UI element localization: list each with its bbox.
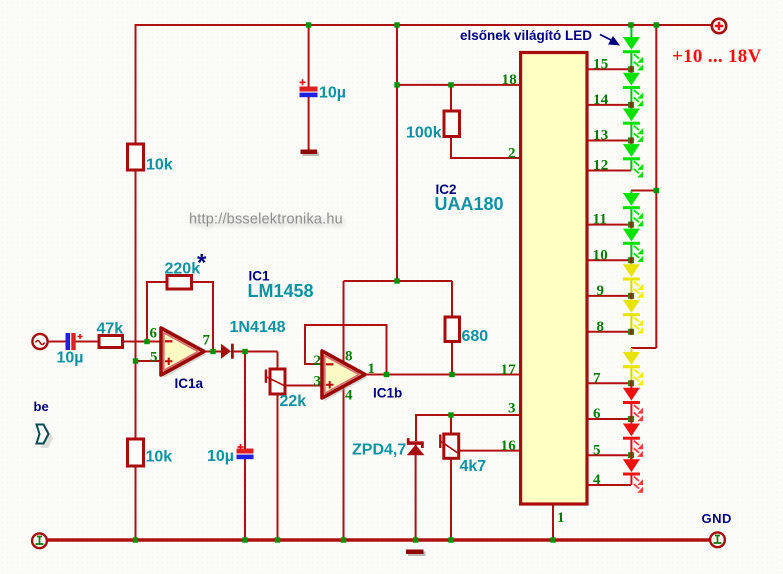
svg-text:17: 17 bbox=[501, 362, 517, 378]
LED D7 (yellow) bbox=[623, 260, 643, 298]
junction LED tap pin 11 bbox=[628, 222, 634, 228]
junction pin18 / 100k bbox=[448, 82, 453, 87]
wire end tick pin 8 bbox=[630, 329, 632, 335]
wire 22k bottom to bus bbox=[277, 394, 279, 540]
svg-text:be: be bbox=[34, 399, 49, 414]
wire decoupling cap top bbox=[308, 25, 310, 87]
junction bus / 4k7 bbox=[448, 537, 453, 542]
resistor 220k bbox=[167, 276, 192, 290]
svg-text:http://bsselektronika.hu: http://bsselektronika.hu bbox=[189, 212, 343, 228]
svg-text:3: 3 bbox=[314, 374, 322, 390]
wire pin 14 bbox=[587, 104, 631, 106]
wire end tick pin 11 bbox=[630, 222, 632, 228]
svg-text:15: 15 bbox=[593, 57, 608, 73]
svg-text:1: 1 bbox=[557, 510, 565, 526]
wire 100k top bbox=[450, 85, 452, 111]
svg-text:1N4148: 1N4148 bbox=[230, 319, 286, 336]
wire top +V rail bbox=[136, 24, 712, 26]
wire end tick pin 14 bbox=[630, 102, 632, 108]
LED D6 (green) bbox=[623, 225, 643, 262]
input port arrow (be) bbox=[37, 425, 54, 449]
svg-text:10µ: 10µ bbox=[207, 448, 234, 465]
svg-text:ZPD4,7: ZPD4,7 bbox=[352, 442, 406, 459]
wire ground bus bbox=[46, 538, 711, 541]
svg-text:UAA180: UAA180 bbox=[435, 194, 504, 214]
ground terminal GND (right end of bus) bbox=[710, 532, 725, 547]
resistor 47k bbox=[99, 336, 123, 348]
svg-text:13: 13 bbox=[593, 128, 608, 144]
svg-text:4: 4 bbox=[345, 388, 353, 404]
wire end tick pin 9 bbox=[630, 293, 632, 299]
LED D1 (green) bbox=[623, 25, 643, 70]
wire end tick pin 10 bbox=[630, 257, 632, 263]
junction pin 3 wire / 4k7 bbox=[448, 412, 453, 417]
LED D11 (red) bbox=[623, 419, 643, 457]
svg-text:+10 ... 18V: +10 ... 18V bbox=[672, 46, 762, 67]
wire pin 6 bbox=[587, 418, 631, 420]
wire IC1b output to pin 17 bbox=[365, 374, 519, 376]
svg-text:1: 1 bbox=[368, 361, 376, 377]
IC U2 UAA180 body bbox=[521, 53, 587, 505]
wire pin 15 bbox=[587, 68, 631, 70]
junction IC1a output / 220k bbox=[210, 349, 215, 354]
resistor 100k bbox=[444, 111, 460, 137]
junction LED tap pin 14 bbox=[628, 102, 634, 108]
svg-text:11: 11 bbox=[593, 212, 608, 228]
svg-text:7: 7 bbox=[203, 333, 211, 349]
LED D10 (red) bbox=[623, 383, 643, 421]
svg-text:5: 5 bbox=[150, 350, 158, 366]
junction LED tap pin 8 bbox=[628, 329, 634, 335]
wire pin 10 bbox=[587, 259, 631, 261]
resistor 10k (lower bias) bbox=[128, 439, 144, 466]
wire pin 16 bbox=[459, 450, 519, 452]
wire IC1b pin 4 drop to bus bbox=[343, 386, 345, 540]
junction top rail / decoupling cap bbox=[306, 22, 311, 27]
arrow pointing to first LED bbox=[600, 35, 620, 46]
wire pin 8 bbox=[587, 331, 631, 333]
wire end tick pin 5 bbox=[630, 452, 632, 458]
junction LED tap pin 15 bbox=[628, 66, 634, 72]
svg-text:22k: 22k bbox=[280, 393, 307, 410]
wire left rail lower (10k to ground bus) bbox=[135, 466, 137, 540]
svg-text:10µ: 10µ bbox=[319, 85, 346, 102]
signal source symbol bbox=[32, 334, 47, 349]
wire zener bottom to bus bbox=[415, 445, 417, 540]
wire pin 7 bbox=[587, 382, 631, 384]
wire pin 3 to zener bbox=[416, 415, 519, 441]
svg-text:*: * bbox=[197, 250, 207, 277]
wire op-amp supply rail bbox=[344, 280, 453, 282]
wire filter cap top bbox=[244, 352, 246, 449]
LED D5 (green) bbox=[623, 191, 643, 227]
svg-text:6: 6 bbox=[593, 406, 601, 422]
wire decoupling cap bottom bbox=[308, 97, 310, 150]
svg-text:16: 16 bbox=[501, 438, 517, 454]
junction pin 5 node bbox=[133, 358, 138, 363]
junction LED tap pin 13 bbox=[628, 138, 634, 144]
junction bus / IC1b pin 4 bbox=[341, 537, 346, 542]
junction IC1b output node bbox=[384, 372, 389, 377]
LED D8 (yellow) bbox=[623, 296, 643, 334]
trimmer 4k7 bbox=[440, 434, 458, 458]
junction LED tap pin 10 bbox=[628, 257, 634, 263]
svg-text:680: 680 bbox=[462, 328, 489, 345]
svg-text:9: 9 bbox=[597, 283, 605, 299]
wire left rail upper (to 10k) bbox=[135, 24, 137, 144]
wire end tick pin 13 bbox=[630, 137, 632, 143]
svg-text:2: 2 bbox=[314, 353, 322, 369]
wire pin 9 bbox=[587, 295, 631, 297]
junction LED tap pin 5 bbox=[628, 452, 634, 458]
capacitor C 10u filter (mid) bbox=[237, 444, 254, 459]
wire feedback 220k loop bbox=[147, 282, 213, 352]
wire pin 5 bbox=[587, 454, 631, 456]
wire pin 4 bbox=[587, 484, 631, 486]
wire LED group 2 top tap bbox=[631, 190, 656, 192]
wire 680 bottom bbox=[451, 342, 453, 375]
wire LED group 3 top tap bbox=[631, 347, 656, 349]
wire 4k7 top bbox=[450, 415, 452, 434]
svg-text:10k: 10k bbox=[146, 449, 173, 466]
wire V+ rail down to op-amp supply bbox=[396, 25, 398, 281]
svg-text:4k7: 4k7 bbox=[460, 458, 487, 475]
junction top rail / LED chain bbox=[628, 22, 633, 27]
junction bus / 22k bbox=[275, 537, 280, 542]
wire IC2 pin 1 to bus bbox=[552, 506, 554, 541]
wire 4k7 bottom to bus bbox=[450, 458, 452, 540]
wire pin 8 drop bbox=[343, 281, 345, 363]
diode 1N4148 bbox=[221, 344, 234, 359]
+V supply terminal bbox=[712, 19, 726, 33]
svg-text:5: 5 bbox=[593, 443, 601, 459]
wire 22k top bbox=[277, 352, 279, 370]
capacitor C 10u input coupling bbox=[66, 333, 83, 350]
label + of decoupling cap bbox=[300, 79, 306, 85]
wire 100k bottom to pin 2 bbox=[451, 137, 519, 159]
zener diode ZPD4,7 bbox=[407, 438, 425, 455]
LED D12 (red) bbox=[623, 455, 643, 493]
wire 22k wiper to IC1b pin 3 bbox=[285, 385, 322, 387]
wire pin 13 bbox=[587, 140, 631, 142]
wire pin5 stub bbox=[136, 360, 162, 362]
ground terminal (left end of bus) bbox=[32, 533, 47, 548]
wire left rail middle (10k to 10k) bbox=[135, 170, 137, 439]
wire input cap to 47k bbox=[76, 341, 100, 343]
wire filter cap bottom bbox=[244, 459, 246, 540]
svg-text:3: 3 bbox=[508, 401, 516, 417]
LED D2 (green) bbox=[623, 69, 643, 106]
svg-text:LM1458: LM1458 bbox=[248, 281, 314, 301]
svg-text:100k: 100k bbox=[406, 125, 442, 142]
svg-text:8: 8 bbox=[345, 349, 353, 365]
op-amp IC1a bbox=[161, 328, 206, 378]
junction LED tap pin 6 bbox=[628, 416, 634, 422]
wire 47k to pin 6 bbox=[123, 341, 162, 343]
LED D4 (green) bbox=[623, 141, 643, 178]
svg-text:8: 8 bbox=[597, 319, 605, 335]
svg-text:7: 7 bbox=[593, 371, 601, 387]
LED D3 (green) bbox=[623, 105, 643, 142]
svg-text:12: 12 bbox=[593, 158, 608, 174]
capacitor C 10u decoupling (top) bbox=[300, 87, 318, 98]
svg-text:elsőnek világító LED: elsőnek világító LED bbox=[460, 28, 592, 43]
svg-text:10: 10 bbox=[593, 248, 608, 264]
op-amp IC1b bbox=[322, 351, 367, 401]
resistor 680 bbox=[445, 317, 460, 342]
svg-text:GND: GND bbox=[702, 511, 732, 526]
wire pin 11 bbox=[587, 224, 631, 226]
junction top rail / V+ drop bbox=[394, 22, 399, 27]
junction pin 6 node bbox=[144, 339, 149, 344]
wire IC1a output to diode bbox=[204, 351, 221, 353]
wire source to input cap bbox=[48, 341, 66, 343]
ground bar of decoupling cap bbox=[301, 150, 320, 157]
wire end tick pin 15 bbox=[630, 66, 632, 72]
junction bus / zener bbox=[413, 537, 418, 542]
junction top rail / right LED rail bbox=[654, 22, 659, 27]
junction diode output node bbox=[242, 349, 247, 354]
svg-text:6: 6 bbox=[150, 326, 158, 342]
resistor 10k (upper bias) bbox=[128, 144, 144, 170]
junction right rail / LED group 2 bbox=[654, 188, 659, 193]
svg-text:IC1b: IC1b bbox=[373, 386, 402, 401]
wire end tick pin 7 bbox=[630, 380, 632, 386]
junction LED tap pin 9 bbox=[628, 293, 634, 299]
wire diode to 22k corner bbox=[234, 351, 278, 353]
svg-text:18: 18 bbox=[502, 72, 517, 88]
svg-text:14: 14 bbox=[593, 92, 609, 108]
trimmer 22k bbox=[266, 369, 285, 394]
LED D9 (yellow) bbox=[623, 348, 643, 385]
svg-text:4: 4 bbox=[593, 472, 601, 488]
svg-text:220k: 220k bbox=[165, 261, 201, 278]
wire pin 12 bbox=[587, 170, 631, 172]
junction bus / filter cap bbox=[242, 537, 247, 542]
wire LED supply rail right bbox=[655, 25, 657, 348]
wire IC1b feedback loop bbox=[305, 325, 387, 375]
wire pin 18 bbox=[397, 84, 519, 86]
junction bus / left rail bbox=[133, 537, 138, 542]
junction LED tap pin 7 bbox=[628, 380, 634, 386]
svg-text:10k: 10k bbox=[146, 157, 173, 174]
ground stub of zener bbox=[406, 550, 426, 557]
junction pin18 / V+ rail bbox=[394, 82, 399, 87]
wire end tick pin 6 bbox=[630, 416, 632, 422]
junction bus / IC2 pin 1 bbox=[550, 537, 555, 542]
svg-text:47k: 47k bbox=[97, 321, 124, 338]
svg-text:2: 2 bbox=[508, 146, 516, 162]
wire 680 top bbox=[451, 281, 453, 317]
junction 680 / pin 17 wire bbox=[449, 372, 454, 377]
svg-text:IC1a: IC1a bbox=[175, 376, 204, 391]
junction supply rail / V+ rail bbox=[394, 278, 399, 283]
svg-text:10µ: 10µ bbox=[57, 350, 84, 367]
